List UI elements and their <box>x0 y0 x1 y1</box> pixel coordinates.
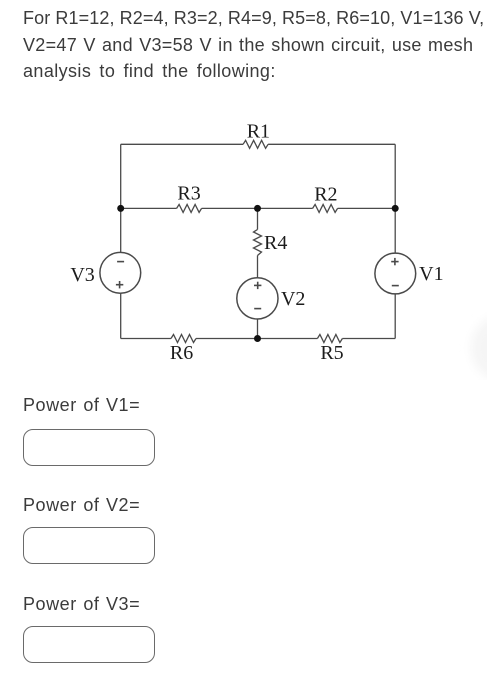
node bottom <box>254 335 261 342</box>
answer label 3 <box>23 594 140 615</box>
resistor R5 <box>317 335 342 343</box>
V2 minus sign <box>254 308 261 310</box>
svg-text:V2: V2 <box>281 288 305 310</box>
V3 minus sign <box>117 261 124 263</box>
svg-text:V3: V3 <box>70 264 94 286</box>
V2 plus sign <box>254 282 261 289</box>
resistor R2 <box>313 204 338 212</box>
wire mid row left <box>121 207 177 209</box>
wire bottom left <box>121 338 171 340</box>
svg-text:R2: R2 <box>314 184 337 206</box>
resistor R3 <box>177 204 202 212</box>
answer label 2 <box>23 495 140 516</box>
node mid <box>254 205 261 212</box>
wire R2 to right node <box>338 207 396 209</box>
wire R1 to top-right <box>268 143 395 145</box>
svg-text:R5: R5 <box>320 342 343 364</box>
wire left vertical top <box>120 144 122 252</box>
resistor R6 <box>171 335 196 343</box>
resistor R1 <box>243 140 268 148</box>
answer label 1 <box>23 395 140 416</box>
node left <box>117 205 124 212</box>
question text <box>23 5 487 85</box>
wire R6 to bottom node <box>196 338 317 340</box>
wire left vertical bottom <box>120 293 122 338</box>
wire right vertical top <box>394 144 396 253</box>
svg-text:R4: R4 <box>264 232 287 254</box>
answer box 1 <box>23 429 155 466</box>
circuit schematic <box>0 0 487 380</box>
svg-text:V1: V1 <box>419 263 443 285</box>
wire R4 to V2 <box>257 256 259 278</box>
wire top-left to R1 <box>121 143 243 145</box>
resistor R4 <box>254 230 262 256</box>
wire R3 to mid node <box>202 207 313 209</box>
wire R5 to bottom right <box>342 338 395 340</box>
V1 minus sign <box>392 285 399 287</box>
wire V2 to bottom node <box>257 319 259 339</box>
svg-text:R1: R1 <box>247 120 270 142</box>
voltage source V2 <box>237 278 278 319</box>
answer box 2 <box>23 527 155 564</box>
svg-text:R3: R3 <box>177 183 200 205</box>
voltage source V1 <box>375 253 416 294</box>
answer box 3 <box>23 626 155 663</box>
V1 plus sign <box>391 258 398 265</box>
V3 plus sign <box>116 281 123 288</box>
node right <box>392 205 399 212</box>
wire mid node down to R4 <box>257 208 259 229</box>
voltage source V3 <box>100 252 141 293</box>
wire right vertical bottom <box>394 294 396 339</box>
svg-text:R6: R6 <box>170 342 193 364</box>
